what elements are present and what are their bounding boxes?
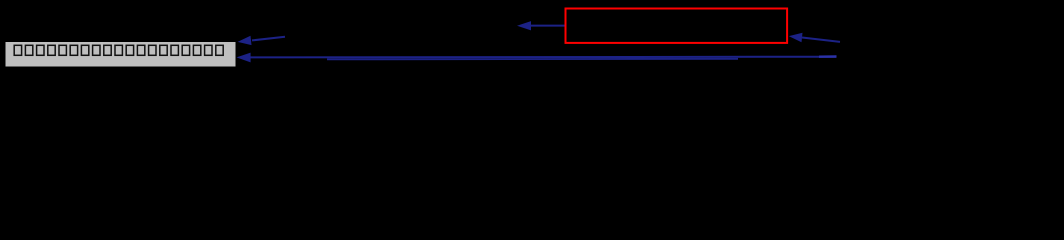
edge E2: long horizontal wire into gray box lower right — [250, 57, 836, 58]
edge E3: second lower wire (parallel, partially overlapping E2) — [327, 58, 738, 61]
arrowhead of E4 — [789, 33, 803, 42]
arrowhead of E1 — [238, 36, 252, 45]
node N1: gray label box — [5, 42, 236, 68]
edge E1: short slanted wire into gray box upper right — [252, 37, 285, 41]
arrowhead of E5 — [517, 21, 531, 30]
edge E5: wire leaving red box left edge — [531, 25, 565, 27]
edge E4: wire into red box right edge — [802, 38, 840, 42]
edge E2 bright end segment — [819, 55, 837, 58]
arrowhead of E2 — [237, 53, 251, 63]
node N1 label: row of missing-glyph (tofu) squares — [14, 45, 223, 55]
node N2: red outlined box — [566, 9, 788, 43]
